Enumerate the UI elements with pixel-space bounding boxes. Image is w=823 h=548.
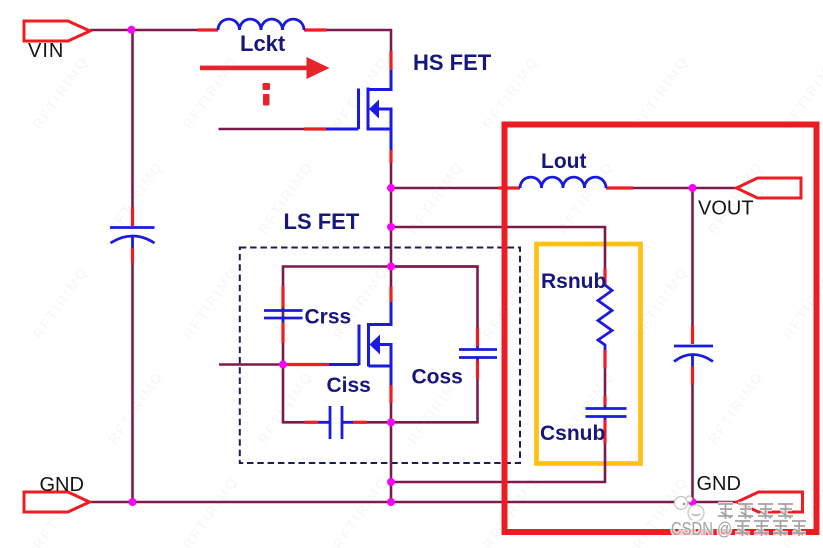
wire HS gate lead: [219, 128, 305, 131]
svg-text:Csnub: Csnub: [540, 422, 605, 445]
label i (current): [263, 83, 271, 106]
pin input cap top: [131, 207, 134, 226]
pin HS source: [389, 150, 392, 163]
wire HS source to SW node: [390, 163, 393, 227]
svg-text:RFTIRIMQ: RFTIRIMQ: [30, 263, 91, 341]
node gnd mid: [387, 498, 395, 506]
capacitor Ciss: [329, 406, 332, 439]
wire Rsnub-Csnub interlink: [604, 368, 607, 396]
resistor Rsnub zigzag: [598, 285, 612, 350]
svg-text:RFTIRIMQ: RFTIRIMQ: [480, 473, 541, 548]
port VOUT: [737, 178, 802, 198]
pin Ciss right: [353, 421, 367, 424]
current arrow i: [200, 57, 330, 79]
pin Csnub bottom: [603, 420, 606, 444]
svg-text:RFTIRIMQ: RFTIRIMQ: [330, 53, 391, 131]
pin Lckt left: [197, 28, 218, 31]
pin LS drain: [389, 287, 392, 303]
CSDN watermark logo: [675, 496, 705, 521]
svg-text:CSDN @: CSDN @: [671, 519, 732, 539]
node snubber tap: [387, 223, 395, 231]
svg-text:Crss: Crss: [305, 306, 352, 329]
wire LS gate stub: [219, 363, 287, 366]
node inner bottom: [387, 418, 395, 426]
port GND right: [737, 492, 803, 512]
pin input cap bottom: [131, 248, 134, 264]
svg-text:GND: GND: [697, 473, 741, 495]
pin Csnub top: [603, 396, 606, 406]
svg-text:RFTIRIMQ: RFTIRIMQ: [255, 368, 316, 446]
inductor Lckt: [218, 19, 304, 30]
port VIN: [24, 21, 90, 41]
pin Rsnub top: [603, 269, 606, 286]
svg-text:LS FET: LS FET: [284, 209, 360, 234]
capacitor Crss: [264, 309, 303, 312]
pin LS gate: [287, 363, 329, 366]
svg-text:RFTIRIMQ: RFTIRIMQ: [330, 473, 391, 548]
wire Lout to VOUT: [606, 187, 737, 190]
pin HS gate: [304, 127, 326, 130]
svg-text:Lckt: Lckt: [240, 31, 286, 56]
svg-text:Rsnub: Rsnub: [541, 270, 606, 293]
node gnd right: [689, 498, 697, 506]
svg-text:Lout: Lout: [541, 150, 586, 173]
capacitor output (plate+arc): [674, 345, 713, 348]
svg-text:RFTIRIMQ: RFTIRIMQ: [180, 263, 241, 341]
node inner top: [387, 263, 395, 271]
pin Lout left: [498, 186, 520, 189]
capacitor Csnub: [586, 407, 627, 410]
wire VOUT vertical: [691, 188, 694, 326]
wire inner box left/top/right/bottom: [283, 267, 478, 365]
pin Crss bottom: [281, 323, 284, 344]
pin Coss top: [476, 328, 479, 347]
svg-text:RFTIRIMQ: RFTIRIMQ: [105, 368, 166, 446]
node VIN junction: [127, 26, 135, 34]
transistor Q2 LS FET: [329, 302, 391, 385]
svg-text:VIN: VIN: [28, 40, 64, 62]
svg-text:GND: GND: [40, 474, 84, 496]
inductor Lout: [520, 177, 606, 188]
svg-text:RFTIRIMQ: RFTIRIMQ: [180, 53, 241, 131]
svg-text:RFTIRIMQ: RFTIRIMQ: [780, 53, 823, 131]
wire below output cap: [691, 385, 694, 503]
wire GND rail: [90, 501, 738, 504]
pin Lout right: [606, 186, 633, 189]
svg-text:RFTIRIMQ: RFTIRIMQ: [330, 263, 391, 341]
svg-text:RFTIRIMQ: RFTIRIMQ: [405, 158, 466, 236]
svg-text:RFTIRIMQ: RFTIRIMQ: [480, 263, 541, 341]
wire LS source to bottom rails: [390, 403, 393, 502]
svg-text:RFTIRIMQ: RFTIRIMQ: [630, 53, 691, 131]
pin Lckt right: [304, 28, 327, 31]
wire VIN to Lckt: [90, 29, 197, 32]
transistor Q1 HS FET: [326, 70, 391, 150]
node SW: [387, 184, 395, 192]
wire below input cap: [131, 264, 134, 503]
wire snubber tap: [391, 227, 605, 269]
pin Crss top: [281, 286, 284, 308]
wire SW vertical into dashed box: [390, 227, 393, 287]
svg-text:VOUT: VOUT: [698, 198, 754, 220]
port GND left: [24, 492, 90, 512]
dashed parasitic box around LS FET: [240, 248, 520, 464]
node LS gate: [279, 361, 287, 369]
pin Rsnub bottom: [603, 350, 606, 368]
pin Coss bottom: [476, 361, 479, 380]
node VOUT: [689, 184, 697, 192]
svg-text:RFTIRIMQ: RFTIRIMQ: [30, 53, 91, 131]
svg-text:RFTIRIMQ: RFTIRIMQ: [105, 158, 166, 236]
watermark text 海马硬件 (mock glyphs): [718, 504, 793, 519]
wire left input rail vertical: [131, 30, 134, 207]
svg-text:RFTIRIMQ: RFTIRIMQ: [705, 368, 766, 446]
svg-text:HS FET: HS FET: [413, 50, 492, 75]
red emphasis box: [505, 125, 817, 533]
svg-text:RFTIRIMQ: RFTIRIMQ: [180, 473, 241, 548]
pin output cap bottom: [691, 367, 694, 385]
node snubber return: [387, 478, 395, 486]
svg-text:Ciss: Ciss: [327, 374, 371, 397]
pin LS source: [389, 385, 392, 403]
pin output cap top: [691, 326, 694, 344]
node gnd left: [129, 498, 137, 506]
pin HS drain: [389, 51, 392, 70]
capacitor input (plate+arc): [110, 226, 155, 229]
svg-text:Coss: Coss: [412, 366, 463, 389]
capacitor Coss: [459, 348, 497, 351]
wire SW node to Lout: [391, 187, 498, 190]
orange snubber highlight box: [537, 244, 641, 464]
wire Lckt to corner, down to HS FET drain: [327, 30, 391, 51]
pin Ciss left: [305, 421, 319, 424]
wire snubber bottom return: [391, 444, 605, 483]
